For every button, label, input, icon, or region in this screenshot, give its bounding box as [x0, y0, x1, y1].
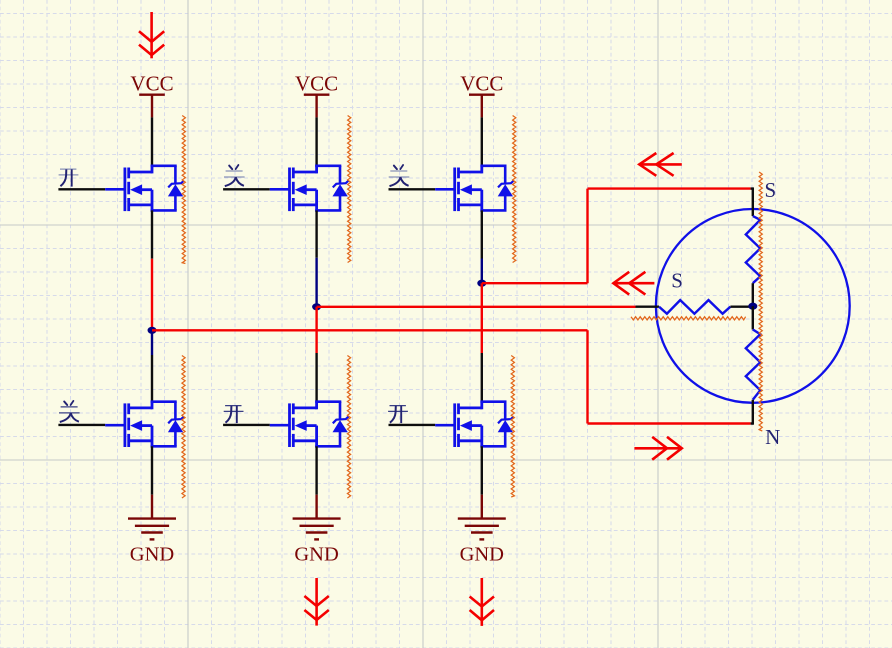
power arrow OUT (bottom, phase 3)	[470, 578, 494, 626]
current arrow (right, bottom)	[634, 437, 681, 460]
power port VCC (phase 3)	[460, 71, 503, 117]
ERC marker Q2	[348, 116, 351, 263]
wire phase A to motor (horizontal)	[152, 329, 588, 331]
ground GND (phase 3)	[458, 495, 506, 566]
svg-text:S: S	[764, 178, 776, 202]
wire to Q5 drain	[315, 353, 317, 402]
wire motor left lead	[636, 306, 660, 308]
transistor Q2 (high side, phase 2)	[270, 165, 349, 212]
svg-text:N: N	[765, 425, 780, 449]
ERC marker motor vertical	[759, 172, 762, 431]
current arrow (left, middle)	[613, 272, 654, 295]
wire phase C riser (vertical)	[586, 189, 588, 284]
wire phase A to motor N terminal	[588, 422, 751, 424]
wire L2 to center	[730, 306, 752, 308]
wire motor N terminal lead	[751, 400, 753, 425]
transistor Q4 (low side, phase 1)	[105, 401, 184, 448]
svg-text:VCC: VCC	[130, 71, 173, 95]
wire Q2 source down	[315, 210, 317, 257]
ERC marker motor horizontal	[631, 317, 746, 320]
wire Q3 source down	[481, 210, 483, 258]
wire Q1 source down	[151, 210, 153, 258]
label 开 (gate Q1)	[59, 169, 79, 187]
wire gate Q6	[389, 424, 436, 426]
wire Q6 source to ground	[481, 446, 483, 494]
ERC marker Q6	[511, 356, 514, 498]
label 开 (gate Q6)	[388, 406, 408, 424]
svg-text:GND: GND	[294, 544, 338, 566]
wire gate Q1	[58, 188, 105, 190]
junction node B	[312, 303, 321, 310]
winding L2 (left, S)	[659, 300, 730, 314]
wire gate Q2	[223, 188, 270, 190]
ERC marker Q3	[513, 116, 516, 263]
junction node A	[148, 327, 157, 334]
label 关 (gate Q2)	[224, 165, 245, 186]
wire phase C to motor (horizontal)	[482, 282, 588, 284]
power port VCC (phase 2)	[295, 71, 338, 117]
power arrow IN (top, phase 1)	[139, 12, 164, 58]
ERC marker Q4	[182, 356, 185, 499]
label 开 (gate Q5)	[224, 406, 244, 424]
wire phase C (red segment)	[481, 283, 483, 353]
svg-text:GND: GND	[130, 544, 174, 566]
current arrow (left, upper)	[639, 153, 682, 176]
wire motor S terminal lead	[751, 187, 753, 216]
wire VCC to Q1 drain	[151, 117, 153, 165]
transistor Q6 (low side, phase 3)	[435, 401, 514, 448]
label 关 (gate Q4)	[59, 401, 80, 422]
svg-text:VCC: VCC	[295, 71, 338, 95]
wire phase C to motor S terminal	[588, 187, 751, 189]
transistor Q5 (low side, phase 2)	[270, 401, 349, 448]
ERC marker Q5	[347, 356, 350, 499]
transistor Q1 (high side, phase 1)	[105, 165, 184, 212]
wire VCC to Q3 drain	[481, 117, 483, 165]
label 关 (gate Q3)	[389, 165, 410, 186]
ERC marker Q1	[182, 116, 185, 264]
power arrow OUT (bottom, phase 2)	[304, 578, 328, 626]
transistor Q3 (high side, phase 3)	[435, 165, 514, 212]
wire above node C (navy)	[481, 259, 483, 284]
winding L1 (top, S)	[746, 216, 761, 283]
wire phase A (red segment)	[151, 259, 153, 331]
wire below node A (navy)	[151, 330, 153, 355]
winding L3 (bottom, N)	[746, 330, 761, 400]
wire phase B (red segment)	[315, 307, 317, 353]
wire VCC to Q2 drain	[315, 117, 317, 165]
junction node C	[477, 280, 486, 287]
wire to Q6 drain	[481, 353, 483, 402]
ground GND (phase 1)	[128, 495, 176, 566]
wire gate Q4	[58, 424, 105, 426]
wire phase B to motor (horizontal)	[317, 306, 636, 308]
wire center to L3	[752, 306, 754, 329]
wire gate Q3	[389, 188, 436, 190]
wire Q5 source to ground	[315, 446, 317, 494]
wire phase A riser (vertical)	[586, 330, 588, 423]
ground GND (phase 2)	[293, 495, 341, 566]
motor M1 stator circle	[656, 209, 850, 403]
svg-text:VCC: VCC	[460, 71, 503, 95]
wire L1 to center	[752, 283, 754, 306]
power port VCC (phase 1)	[130, 71, 173, 117]
wire above node B (navy)	[315, 258, 317, 307]
wire Q4 source to ground	[151, 446, 153, 494]
wire gate Q5	[223, 424, 270, 426]
junction motor center	[748, 303, 757, 310]
svg-text:GND: GND	[460, 544, 504, 566]
svg-text:S: S	[671, 269, 683, 293]
wire to Q4 drain	[151, 355, 153, 402]
